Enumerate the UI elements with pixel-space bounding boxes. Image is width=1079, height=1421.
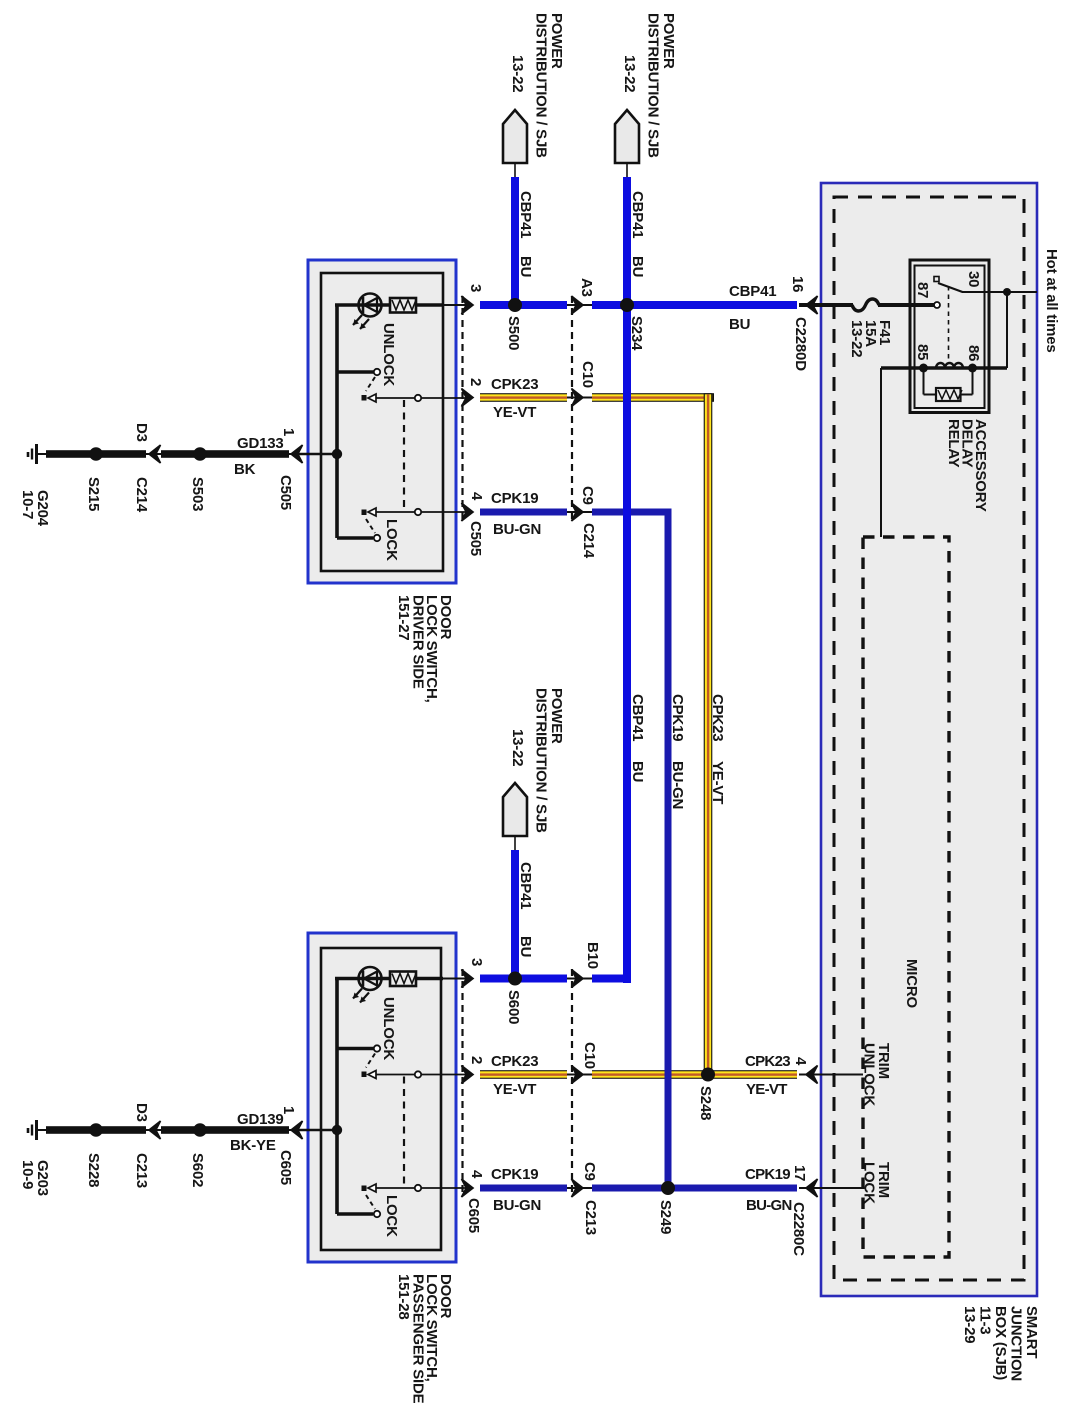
label G203 10-9	[19, 1160, 51, 1196]
connector arrow C9 driver	[572, 503, 584, 521]
svg-text:13-22: 13-22	[509, 729, 526, 766]
connector arrow C9 passenger	[572, 1179, 584, 1197]
label CPK23 YE-VT vertical	[709, 694, 726, 804]
wire pin 3 stub driver	[443, 304, 468, 306]
wire CPK19 BU-GN driver horizontal	[480, 509, 671, 516]
svg-text:POWER: POWER	[660, 13, 677, 69]
svg-text:MICRO: MICRO	[903, 959, 920, 1009]
svg-text:C214: C214	[580, 523, 597, 559]
connector arrow B10	[572, 970, 584, 988]
svg-text:CPK19: CPK19	[745, 1166, 790, 1183]
svg-text:UNLOCK: UNLOCK	[861, 1043, 878, 1106]
svg-text:YE-VT: YE-VT	[493, 1081, 536, 1098]
svg-text:S248: S248	[697, 1086, 714, 1120]
svg-text:C9: C9	[581, 1162, 598, 1181]
label smart junction box	[961, 1306, 1040, 1381]
svg-text:10-9: 10-9	[19, 1160, 36, 1189]
wire lamp row passenger	[335, 977, 443, 981]
relay box accessory delay relay	[910, 260, 989, 413]
svg-text:SMART: SMART	[1023, 1306, 1040, 1358]
junction pin1 driver	[332, 449, 342, 459]
connector arrow pin 3 passenger	[462, 970, 474, 988]
svg-text:3: 3	[467, 284, 484, 292]
label door lock switch driver side	[395, 595, 454, 703]
connector arrow C605 pin 1 passenger	[291, 1121, 303, 1139]
svg-text:BU: BU	[729, 316, 750, 333]
svg-text:S500: S500	[505, 316, 522, 350]
svg-text:DISTRIBUTION / SJB: DISTRIBUTION / SJB	[533, 13, 550, 158]
svg-text:BOX (SJB): BOX (SJB)	[992, 1306, 1009, 1380]
relay suppression resistor	[924, 368, 973, 401]
connector line C214-C10 driver dashed	[571, 296, 573, 519]
switch UNLOCK driver	[337, 369, 468, 402]
resistor passenger	[390, 972, 416, 987]
label CBP41 BU long vertical	[629, 694, 646, 782]
junction relay pin 85	[919, 364, 928, 373]
resistor driver	[390, 298, 416, 313]
svg-text:C213: C213	[582, 1200, 599, 1235]
junction S248	[701, 1068, 715, 1082]
svg-text:BU: BU	[629, 761, 646, 782]
svg-text:DISTRIBUTION / SJB: DISTRIBUTION / SJB	[533, 688, 550, 833]
svg-text:S602: S602	[189, 1153, 206, 1187]
connector arrow C10 passenger	[572, 1066, 584, 1084]
svg-text:BU-GN: BU-GN	[669, 761, 686, 809]
wire relay to micro	[880, 368, 882, 537]
connector arrow C214 (D3)	[149, 445, 161, 463]
svg-text:D3: D3	[133, 423, 150, 442]
wire CBP41 BU feed 1 vertical	[511, 177, 519, 309]
wire fuse to relay pin 87	[878, 303, 934, 307]
svg-text:S234: S234	[628, 316, 645, 351]
wire left vertical bus passenger	[335, 979, 339, 1215]
svg-text:YE-VT: YE-VT	[709, 761, 726, 804]
svg-text:CBP41: CBP41	[517, 862, 534, 909]
relay coil	[936, 363, 963, 368]
svg-text:JUNCTION: JUNCTION	[1008, 1306, 1025, 1381]
svg-text:LOCK: LOCK	[861, 1162, 878, 1204]
wire CBP41 BU top horizontal	[480, 301, 797, 309]
svg-text:2: 2	[468, 1056, 485, 1064]
svg-text:BK: BK	[234, 461, 256, 478]
connector arrow pin 17 SJB C2280C	[806, 1179, 818, 1197]
connector arrow A3	[572, 296, 584, 314]
label power distribution 1	[509, 13, 565, 158]
svg-text:CBP41: CBP41	[629, 694, 646, 741]
connector arrow pin 4 passenger	[462, 1179, 474, 1197]
svg-text:17: 17	[791, 1165, 808, 1181]
connector line C605 passenger dashed	[461, 969, 463, 1195]
svg-text:POWER: POWER	[548, 13, 565, 69]
svg-text:3: 3	[468, 958, 485, 966]
svg-text:85: 85	[914, 344, 931, 360]
connector arrow C10 driver	[572, 389, 584, 407]
mechanical link passenger dashed	[403, 1077, 405, 1187]
svg-text:BU: BU	[517, 936, 534, 957]
svg-text:87: 87	[914, 282, 931, 298]
relay pin 87 terminal	[934, 302, 940, 308]
wire CBP41 BU passenger horizontal	[480, 975, 631, 983]
svg-text:D3: D3	[133, 1103, 150, 1122]
svg-text:UNLOCK: UNLOCK	[380, 997, 397, 1060]
svg-text:151-28: 151-28	[395, 1274, 412, 1320]
svg-text:CPK19: CPK19	[491, 490, 538, 507]
wire coil row	[881, 366, 1007, 370]
label TRIM LOCK	[861, 1162, 893, 1204]
junction S600	[508, 972, 522, 986]
SJB inner dashed box	[834, 197, 1024, 1280]
ground G204	[28, 444, 37, 464]
connector arrow pin 2 driver	[462, 389, 474, 407]
LED indicator passenger	[353, 967, 382, 1003]
svg-text:C2280C: C2280C	[790, 1202, 807, 1256]
connector arrow pin 4 SJB	[806, 1066, 818, 1084]
svg-text:GD133: GD133	[237, 435, 284, 452]
wire GD139 BK-YE segment b	[161, 1126, 289, 1134]
svg-text:BU: BU	[517, 256, 534, 277]
svg-text:GD139: GD139	[237, 1111, 284, 1128]
switch UNLOCK passenger	[337, 1045, 468, 1078]
svg-text:CPK19: CPK19	[669, 694, 686, 741]
junction S602	[193, 1123, 207, 1137]
wire CPK19 BU-GN passenger horizontal	[480, 1185, 797, 1192]
wire pin 1 passenger	[296, 1129, 337, 1132]
svg-text:CPK23: CPK23	[709, 694, 726, 741]
smart junction box SJB outline	[821, 183, 1037, 1296]
connector arrow C213 (D3)	[149, 1121, 161, 1139]
wire ground chain 2 thin base	[37, 1129, 306, 1131]
svg-text:UNLOCK: UNLOCK	[380, 323, 397, 386]
junction S228	[89, 1123, 103, 1137]
wire CPK23 YE-VT vertical	[704, 393, 713, 1079]
svg-text:4: 4	[468, 1170, 485, 1179]
label power distribution 2	[621, 13, 677, 158]
label door lock switch passenger side	[395, 1274, 454, 1404]
label TRIM UNLOCK	[861, 1043, 893, 1106]
wire ground chain 1 thin base	[37, 453, 306, 455]
svg-text:C605: C605	[465, 1198, 482, 1233]
connector arrow pin 3 driver	[462, 296, 474, 314]
svg-text:CPK23: CPK23	[491, 1053, 538, 1070]
relay link dashed	[948, 286, 950, 362]
junction S234	[620, 298, 634, 312]
wire trim unlock	[799, 1074, 863, 1076]
wire pin 3 stub passenger	[443, 978, 468, 980]
svg-text:CPK23: CPK23	[491, 376, 538, 393]
label F41 15A 13-22	[848, 320, 893, 357]
svg-text:DISTRIBUTION / SJB: DISTRIBUTION / SJB	[645, 13, 662, 158]
wire pin 30 to hot feed	[962, 291, 1037, 293]
relay switch arm pin 30	[938, 283, 963, 292]
svg-text:YE-VT: YE-VT	[493, 404, 536, 421]
power distribution arrow 1	[503, 110, 527, 177]
svg-text:S600: S600	[505, 990, 522, 1024]
svg-text:Hot at all times: Hot at all times	[1043, 249, 1060, 353]
svg-text:S215: S215	[85, 477, 102, 511]
svg-text:86: 86	[965, 345, 982, 361]
DOOR LOCK SWITCH PASSENGER SIDE box	[308, 933, 456, 1262]
connector arrow C505 pin 1 driver	[291, 445, 303, 463]
connector arrow C2280D pin 16	[806, 296, 818, 314]
ground G203	[28, 1120, 37, 1140]
wire CPK23 YE-VT passenger horizontal	[480, 1070, 797, 1079]
svg-text:BU-GN: BU-GN	[493, 521, 541, 538]
junction S500	[508, 298, 522, 312]
svg-text:S503: S503	[189, 477, 206, 511]
LED indicator driver	[353, 294, 382, 330]
label G204 10-7	[19, 490, 51, 527]
svg-text:151-27: 151-27	[395, 595, 412, 641]
wire CPK23 YE-VT driver horizontal	[480, 393, 714, 402]
junction pin1 passenger	[332, 1125, 342, 1135]
svg-text:CBP41: CBP41	[629, 191, 646, 238]
svg-text:LOCK: LOCK	[383, 519, 400, 561]
svg-text:BU-GN: BU-GN	[746, 1197, 792, 1214]
wire fuse feed F41 to C2280D	[799, 303, 853, 307]
svg-text:BK-YE: BK-YE	[230, 1137, 276, 1154]
svg-text:C2280D: C2280D	[792, 317, 809, 371]
svg-text:BU-GN: BU-GN	[493, 1197, 541, 1214]
label CBP41 BU wire 1	[517, 191, 534, 277]
svg-text:S249: S249	[657, 1200, 674, 1234]
svg-text:RELAY: RELAY	[945, 419, 962, 468]
wire hot feed down to coil	[1006, 292, 1008, 368]
svg-text:A3: A3	[578, 278, 595, 297]
svg-text:CPK19: CPK19	[491, 1166, 538, 1183]
junction S215	[89, 447, 103, 461]
label power distribution 3	[509, 688, 565, 833]
wire GD133 BK segment a	[46, 450, 146, 458]
svg-text:CPK23: CPK23	[745, 1053, 790, 1070]
svg-text:B10: B10	[584, 942, 601, 969]
svg-text:16: 16	[789, 276, 806, 292]
svg-text:13-22: 13-22	[509, 55, 526, 92]
connector line C505 driver dashed	[461, 296, 463, 519]
svg-text:S228: S228	[85, 1153, 102, 1187]
svg-text:C10: C10	[579, 361, 596, 388]
svg-text:BU: BU	[629, 256, 646, 277]
svg-text:C605: C605	[277, 1150, 294, 1185]
connector line C213-C10 passenger dashed	[571, 969, 573, 1195]
junction S503	[193, 447, 207, 461]
wire GD139 BK-YE segment a	[46, 1126, 146, 1134]
svg-text:4: 4	[468, 492, 485, 501]
svg-text:11-3: 11-3	[977, 1306, 994, 1334]
svg-text:LOCK: LOCK	[383, 1195, 400, 1237]
svg-text:POWER: POWER	[548, 688, 565, 744]
label CPK19 BU-GN vertical	[669, 694, 686, 809]
svg-text:10-7: 10-7	[19, 490, 36, 519]
wire GD133 BK segment b	[161, 450, 289, 458]
switch LOCK passenger	[337, 1184, 468, 1217]
connector arrow pin 2 passenger	[462, 1066, 474, 1084]
svg-text:30: 30	[965, 271, 982, 287]
wire pin 1 driver	[296, 453, 337, 456]
svg-text:CBP41: CBP41	[729, 283, 776, 300]
switch LOCK driver	[337, 508, 468, 541]
svg-text:13-22: 13-22	[848, 320, 865, 357]
svg-text:4: 4	[792, 1057, 809, 1066]
fuse F41	[852, 299, 879, 311]
wire CPK19 BU-GN vertical	[665, 509, 672, 1192]
DOOR LOCK SWITCH DRIVER SIDE box	[308, 260, 456, 583]
svg-text:C9: C9	[579, 486, 596, 505]
mechanical link driver dashed	[403, 400, 405, 510]
MICRO dashed box	[863, 537, 949, 1257]
wire trim lock	[799, 1187, 863, 1189]
svg-text:YE-VT: YE-VT	[746, 1081, 787, 1098]
svg-text:CBP41: CBP41	[517, 191, 534, 238]
svg-text:C10: C10	[581, 1042, 598, 1069]
label CBP41 BU wire 3	[517, 862, 534, 957]
power distribution arrow 3 (middle)	[503, 783, 527, 850]
label accessory delay relay	[945, 419, 989, 512]
label CBP41 BU wire 2	[629, 191, 646, 277]
svg-text:13-29: 13-29	[961, 1306, 978, 1343]
connector arrow pin 4 driver	[462, 503, 474, 521]
wire CBP41 BU feed 3 vertical (middle)	[511, 850, 519, 983]
wire lamp row driver	[335, 303, 443, 307]
svg-text:C213: C213	[133, 1153, 150, 1188]
relay contact fixed point	[934, 277, 939, 282]
power distribution arrow 2	[615, 110, 639, 177]
wire left vertical bus driver	[335, 305, 339, 538]
svg-text:C214: C214	[133, 477, 150, 513]
junction hot at all times	[1003, 288, 1011, 296]
svg-text:13-22: 13-22	[621, 55, 638, 92]
junction relay pin 86	[968, 364, 977, 373]
junction S249	[661, 1181, 675, 1195]
svg-text:C505: C505	[467, 521, 484, 556]
svg-text:C505: C505	[277, 475, 294, 510]
wire CBP41 BU feed 2 vertical long	[623, 177, 631, 983]
svg-text:2: 2	[467, 378, 484, 386]
